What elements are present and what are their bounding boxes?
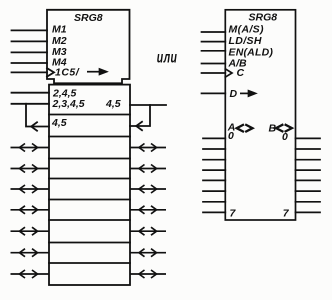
chevrons port A bidirectional [237, 124, 253, 132]
svg-text:C: C [237, 67, 245, 79]
wire port B3 bidirectional right [130, 206, 166, 214]
register U2 box [225, 10, 295, 220]
bidirectional port arrows U1 (7 cells) [11, 144, 167, 279]
wire A/B input [202, 63, 226, 65]
wire A1 line [203, 148, 225, 150]
U1 cell divider 8 [49, 262, 130, 264]
svg-text:0: 0 [282, 131, 288, 143]
wire B2 line [296, 159, 321, 161]
svg-text:2,3,4,5: 2,3,4,5 [52, 98, 85, 110]
dynamic input triangle U2 clock [225, 69, 232, 77]
svg-text:M1: M1 [52, 23, 67, 35]
wire Q7 feedback right vertical [130, 105, 150, 126]
wire B7 line [296, 211, 321, 213]
svg-text:M(A/S): M(A/S) [229, 24, 264, 36]
svg-text:SRG8: SRG8 [74, 12, 103, 24]
wire LD/SH input [202, 41, 226, 43]
wire port B4 bidirectional right [130, 227, 166, 235]
wire port A0 bidirectional left [11, 144, 50, 152]
svg-text:D: D [230, 88, 238, 100]
U1 cell divider 5 [49, 199, 130, 201]
wire port B2 bidirectional right [130, 185, 166, 193]
U1 cell divider 1 [49, 114, 130, 116]
wire port B5 bidirectional right [130, 249, 166, 257]
wire M1 input [12, 29, 48, 31]
wire B6 line [296, 201, 321, 203]
wire M3 input [12, 51, 48, 53]
wire port B0 bidirectional right [130, 144, 166, 152]
wire M(A/S) input [202, 31, 226, 33]
wire A4 line [203, 179, 225, 181]
arrow shift-right after 1C5/ [87, 69, 107, 74]
wire B0 line [296, 137, 321, 139]
arrow after D [240, 91, 256, 96]
wire EN(ALD) input [202, 50, 226, 52]
svg-text:1C5/: 1C5/ [55, 67, 80, 79]
wire B3 line [296, 169, 321, 171]
wire port A4 bidirectional left [11, 227, 50, 235]
wire port A6 bidirectional left [11, 270, 50, 278]
wire serial input DR (U1 left upper) [12, 92, 50, 94]
register U1 common control block [47, 10, 130, 84]
wire port A5 bidirectional left [11, 249, 50, 257]
wire port B6 bidirectional right [130, 270, 166, 278]
wire port A3 bidirectional left [11, 206, 50, 214]
svg-text:0: 0 [228, 130, 234, 142]
wire A2 line [203, 159, 225, 161]
U1 cell divider 6 [49, 219, 130, 221]
U1 cell divider 7 [49, 242, 130, 244]
wire C clock input U1 [12, 71, 48, 73]
wire M2 input [12, 40, 48, 42]
wire A5 line [203, 190, 225, 192]
chevrons port B bidirectional [276, 124, 292, 132]
wire A3 line [203, 169, 225, 171]
wire A6 line [203, 201, 225, 203]
U1 cell divider 4 [49, 178, 130, 180]
wire C clock input U2 [202, 72, 226, 74]
wire B1 line [296, 148, 321, 150]
arrowhead Q7 right (points left) [136, 122, 142, 130]
wire port A1 bidirectional left [11, 165, 50, 173]
U1 cell divider 3 [49, 158, 130, 160]
U1 cell divider 2 [49, 136, 130, 138]
svg-text:SRG8: SRG8 [249, 12, 278, 24]
wire A0 line [203, 137, 225, 139]
svg-text:4,5: 4,5 [105, 98, 121, 110]
wire B5 line [296, 190, 321, 192]
wire D input [202, 92, 226, 94]
wire serial right (U1 right) [130, 104, 166, 106]
wire Q0 feedback left vertical [26, 104, 49, 127]
wire A7 line [203, 211, 225, 213]
arrowhead Q0 left (points left) [31, 122, 37, 130]
wire M4 input [12, 62, 48, 64]
wire B4 line [296, 179, 321, 181]
wire port A2 bidirectional left [11, 185, 50, 193]
svg-text:или: или [157, 48, 178, 66]
register U1 cell array box [49, 85, 130, 285]
dynamic input triangle U1 clock [47, 68, 54, 76]
svg-text:4,5: 4,5 [51, 117, 67, 129]
wire port B1 bidirectional right [130, 165, 166, 173]
wire serial input DL (U1 left lower) [12, 103, 50, 105]
